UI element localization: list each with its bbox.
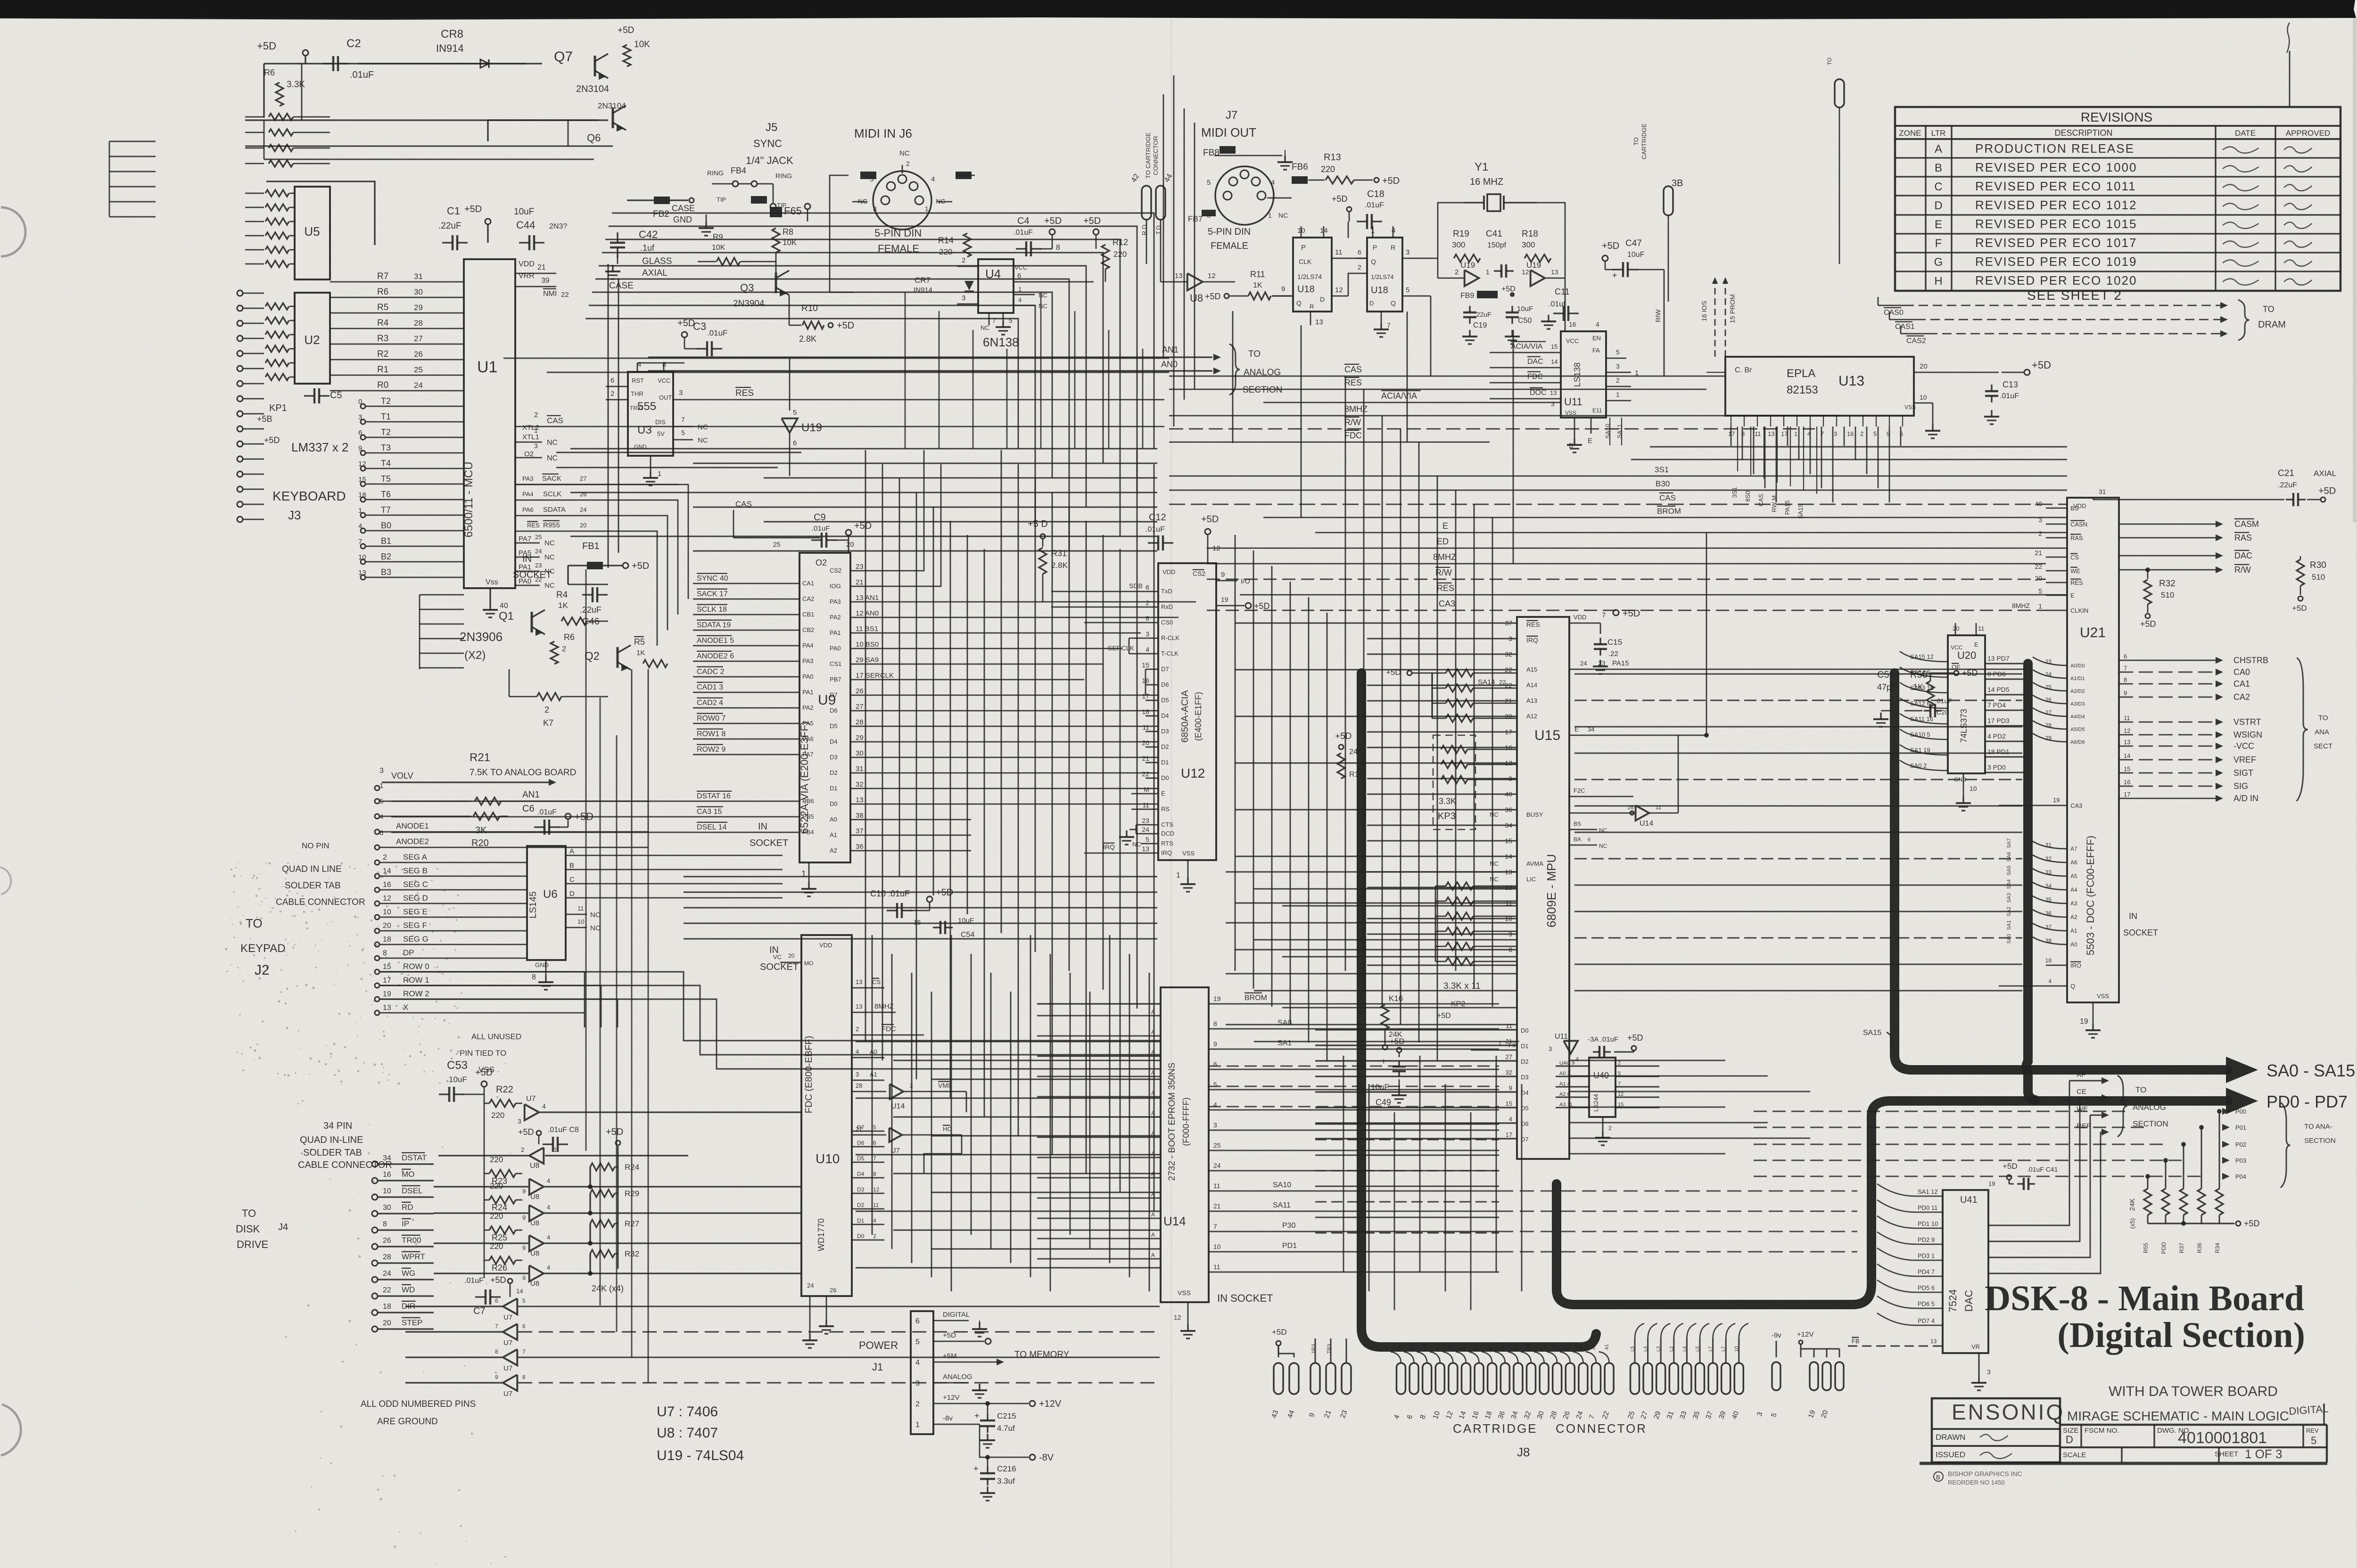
U6 right pins	[566, 855, 783, 856]
IC U4 6N138 box	[978, 259, 1014, 313]
cartridge pins group C	[1391, 1352, 1401, 1363]
ferrite bead FB9	[1477, 291, 1498, 298]
hole punch bottom left	[1, 1404, 21, 1455]
ferrite bead FB2	[654, 197, 670, 204]
wire row E	[1315, 532, 2067, 534]
J1 +5M pin	[933, 1362, 998, 1363]
IC U21 DOC box	[2067, 498, 2119, 1002]
wire row FDC	[1169, 442, 1490, 443]
IC U9 VIA box	[799, 553, 850, 862]
revisions table frame	[1895, 107, 2341, 291]
flip-flop U18b box	[1367, 238, 1402, 312]
inverter U19b	[1531, 270, 1545, 286]
transistor Q3	[775, 272, 777, 293]
ferrite bead FB7	[1202, 210, 1216, 216]
resistor R10	[802, 321, 824, 329]
U13 top pin to +5D	[1914, 372, 1999, 373]
U41 right outputs	[1988, 1224, 2055, 1226]
inverter U14a	[852, 1091, 886, 1092]
wire stub rows far left	[109, 141, 156, 142]
wire eprom rows extended	[1499, 1190, 1857, 1192]
J1 digital pin	[933, 1320, 969, 1322]
wire AN0 to analog	[648, 370, 1212, 371]
U3 pin wires	[606, 386, 628, 387]
ferrite bead J6 right	[956, 172, 972, 179]
revisions rows	[1895, 157, 2341, 158]
pullup resistor R32	[590, 1250, 615, 1257]
long wires top left to mid	[503, 357, 1169, 359]
buffer R24	[529, 1205, 544, 1221]
arrow PROM	[1725, 283, 1726, 357]
U12 data pins connect	[1146, 669, 1158, 670]
resistor R8 10K	[772, 228, 780, 253]
pullup resistor R27	[590, 1220, 615, 1227]
keyboard connector J3 pins	[237, 290, 243, 296]
U9 left pin rows	[693, 583, 799, 584]
bus PD vertical from U20	[2027, 664, 2036, 1100]
U21 right mid pins	[2119, 660, 2216, 661]
IC U11 LS138 box	[1561, 331, 1606, 418]
hole punch middle left	[0, 867, 11, 895]
IC U3 555 box	[628, 372, 673, 456]
wire top to Q7	[523, 63, 542, 64]
bus SA horizontal arrow	[1895, 673, 2228, 1070]
U13 bottom pins	[1731, 416, 1731, 427]
pullup resistor R24	[590, 1163, 615, 1171]
U11 right pins	[1606, 358, 1626, 359]
U14 right pins	[1209, 1003, 1499, 1004]
J7 gnd right	[1285, 150, 1286, 156]
row wires J2 to bottom mesh	[380, 972, 1161, 1041]
resistor 3.3K	[276, 82, 283, 106]
transistor Q6	[611, 107, 614, 128]
title block cells	[2080, 1425, 2082, 1447]
wire row ACIA/VIA	[1263, 402, 1561, 403]
resistor R30 510	[2297, 559, 2304, 586]
wire right column tall	[2289, 51, 2291, 107]
brace pd right	[2281, 1103, 2290, 1188]
wire top left rails	[245, 146, 613, 147]
U21 CA3 pin	[1999, 805, 2067, 806]
wire q3 down	[789, 295, 790, 325]
wire row 8MHZ	[1169, 415, 1838, 417]
capacitor C19	[1469, 306, 1470, 312]
IC U41 DAC box	[1943, 1190, 1988, 1353]
resistor pack KP3 upper	[1407, 671, 1412, 675]
IC U10 FDC box	[801, 935, 852, 1296]
vertical bus columns U9-U12	[865, 450, 866, 1042]
extra rows below U1	[556, 452, 801, 453]
U15 bottom data pins	[1315, 1029, 1517, 1030]
U40 left pins	[1556, 1066, 1589, 1067]
wire row RW	[1169, 428, 1815, 430]
bus SA thick vertical	[1361, 673, 1596, 1347]
bus arrowhead SA	[2226, 1057, 2258, 1083]
long rows u15 to right	[1574, 673, 2022, 675]
U5 input resistors	[245, 193, 264, 194]
U1 pin XTL2 CAS wire	[515, 426, 1164, 427]
U4 bottom pins	[989, 313, 990, 325]
capacitor C46	[582, 594, 593, 595]
IC U1 MCU box	[464, 259, 515, 588]
fold vertical bundle	[1163, 94, 1164, 358]
wire row ED	[1207, 548, 2067, 549]
U41 FB pin	[1848, 1345, 1943, 1346]
ferrite bead J6 left	[860, 172, 876, 179]
PD feed rows	[1754, 1110, 2130, 1112]
hole punch top left	[1, 207, 25, 256]
U15 right pins top	[1569, 623, 1600, 624]
U14 left pins	[1037, 1015, 1161, 1016]
IC U20 latch box	[1948, 635, 1985, 773]
row wires to right	[380, 971, 585, 973]
U12 left connecting wires	[1051, 591, 1158, 592]
wire row 8MHZ2	[1207, 563, 2046, 565]
U1 PA pins NC stubs	[515, 542, 540, 544]
U21 right arrows top	[2119, 524, 2216, 525]
title block frame	[1932, 1398, 2060, 1462]
IC U40 box	[1589, 1058, 1615, 1117]
wire row BROM	[1263, 517, 2067, 518]
horizontal rows into U15	[1235, 623, 1517, 624]
IC U6 LS145 box	[527, 846, 566, 960]
twisted pair RxD TxD	[1142, 186, 1151, 220]
U21 A7-A0 pins	[2033, 841, 2067, 849]
resistor pack KP3 lower	[1446, 882, 1473, 890]
keyboard T rows to U1	[361, 404, 365, 409]
cartridge pins group B	[1314, 1338, 1316, 1363]
dust speckles	[225, 862, 511, 1565]
wire +5D R12	[1093, 229, 1099, 235]
flip-flop U18a box	[1293, 238, 1332, 312]
wire row CAS3	[1207, 610, 2046, 611]
U6 NC pins	[566, 914, 587, 915]
analog arrows	[2069, 1080, 2102, 1082]
U40 gnd	[1602, 1117, 1604, 1131]
U15 pin E	[1569, 735, 1706, 736]
resistor R7 2ohm	[537, 693, 561, 700]
buffer R26	[529, 1265, 544, 1281]
IC U12 ACIA box	[1158, 563, 1216, 860]
vertical drop columns to cartridge	[1343, 1056, 1344, 1272]
wire disk row R26	[434, 1272, 528, 1274]
capacitor C49	[1397, 1048, 1401, 1052]
horizontal rows lower bus	[684, 876, 1157, 878]
wire drops from osc	[1430, 296, 1432, 376]
brace analog	[1229, 344, 1240, 395]
horizontals between U12 and U15 lower	[1226, 871, 1517, 873]
wire disk row R25	[434, 1242, 528, 1244]
inverter J7i	[852, 1134, 886, 1136]
wire q6	[488, 119, 599, 121]
J1 analog pin	[933, 1382, 969, 1384]
brace analog dac	[2118, 1075, 2127, 1137]
buffer U8 triangle	[1187, 273, 1203, 290]
U12 lower pins	[1131, 793, 1158, 795]
+5D rail disk	[484, 1094, 485, 1278]
U15 pins BS BA	[1569, 829, 1597, 830]
capacitor C50	[1511, 306, 1513, 312]
wire row BS0	[1169, 490, 2067, 491]
wire row RW2	[1207, 579, 2046, 580]
U9 upper right wires	[850, 570, 882, 572]
U15 lower right wires	[1569, 1059, 1725, 1061]
keyboard J3 pin wires upper	[245, 116, 264, 118]
U21 left pins upper	[2046, 508, 2067, 509]
lower buffers U7	[503, 1298, 518, 1314]
U13 left pin	[1706, 372, 1725, 373]
vertical drops mid top	[1232, 311, 1234, 443]
wire rail 2	[245, 119, 608, 121]
resistor R12 220	[1102, 245, 1109, 269]
U15 pin FIC	[1569, 796, 1633, 797]
IC U15 MPU box	[1517, 617, 1569, 1159]
wire top rail	[264, 63, 526, 64]
capacitor C2	[323, 63, 333, 64]
U5/U2 output rows to U1	[330, 281, 464, 283]
U9 lower right wires	[850, 819, 971, 821]
stadium J8b	[1835, 79, 1844, 107]
EPLA bottom fan verticals	[1731, 427, 1732, 446]
ferrite bead FB8	[1220, 146, 1236, 154]
wires U1 left lower rows	[420, 594, 464, 596]
U41 left pin fan	[1877, 1184, 1943, 1196]
jack J5 symbol	[733, 181, 738, 187]
J1 +12V pin	[933, 1403, 1029, 1404]
U21 IRO pin	[2046, 965, 2067, 966]
wire AN1	[375, 799, 379, 804]
inverter U19a	[1465, 270, 1479, 286]
vertical columns lower mesh	[872, 935, 873, 1235]
buffer R23	[529, 1179, 544, 1195]
extra columns top mid	[905, 292, 906, 449]
keypad J2 connector pins	[375, 860, 379, 865]
connector J6 DIN circle	[873, 171, 931, 230]
U20 PD pins	[1985, 663, 2023, 665]
resistor array 24K x5	[2144, 1189, 2151, 1215]
wire u18 connect	[1348, 273, 1356, 296]
U1 pin XTL1 NC	[515, 442, 542, 443]
connector J1 box	[911, 1311, 933, 1434]
wire KB loop rect	[266, 181, 375, 245]
capacitor C216	[987, 1457, 989, 1467]
resistor R20 3K	[375, 814, 379, 819]
wire to diode	[358, 63, 523, 64]
EPLA fan horizontals	[1650, 446, 2067, 448]
wire AN1 to analog	[648, 356, 1212, 358]
revisions columns	[1925, 126, 1926, 291]
buffer U7a	[525, 1104, 539, 1120]
wire row CAS2	[1169, 504, 2067, 505]
cartridge pins group D	[1635, 1323, 1644, 1338]
bishop graphics credit	[1934, 1472, 1943, 1481]
pullup resistor R29	[590, 1190, 615, 1197]
wire disk row R23	[434, 1186, 528, 1187]
+5D pullup rail	[618, 1146, 619, 1269]
vertical wires left bottom mesh	[585, 569, 587, 1151]
page right edge seam	[2353, 18, 2357, 522]
vertical pair left of U9	[607, 264, 609, 568]
arrow IOS	[1714, 283, 1716, 357]
U1 to U9 connection wires	[515, 484, 688, 599]
J1 +5D pin	[933, 1341, 984, 1342]
U9 bottom gnd	[808, 862, 810, 882]
ferrite bead FB6	[1292, 176, 1308, 184]
U3 ground	[650, 456, 651, 471]
wire row BS1	[1169, 476, 2067, 477]
vertical columns right of U12	[1235, 535, 1236, 971]
U15 pin PA15	[1569, 669, 2027, 670]
inverter U19 left	[789, 358, 791, 410]
disk connector rows	[372, 1161, 378, 1167]
J1 -8V pin	[933, 1424, 980, 1425]
title block bottom bar	[1920, 1462, 2327, 1465]
wire row CAS mid	[1169, 376, 1725, 377]
horizontal rows eprom left	[856, 1041, 1161, 1043]
resistor pack KP3 dashed box	[1433, 735, 1475, 829]
J6 frame wires	[830, 175, 853, 292]
U1 pin phi2 NC	[515, 457, 542, 459]
U2 input resistors	[265, 303, 289, 310]
wire disk row R24	[434, 1212, 528, 1214]
capacitor C15	[1599, 638, 1601, 644]
U20 SA fan	[1900, 651, 1948, 662]
capacitor C215	[987, 1404, 989, 1414]
IC U5 box	[295, 187, 330, 279]
page fold line center	[1170, 19, 1172, 1568]
U40 right pins	[1615, 1066, 1659, 1067]
bus PD thick loop	[1557, 1101, 2228, 1305]
U10 right pins lower data	[852, 1131, 884, 1132]
scanner black band top	[0, 0, 2356, 20]
wire row RES2	[1240, 594, 2067, 596]
J7 frame	[1214, 155, 1273, 156]
wire long cas row	[419, 595, 420, 669]
buffer R25	[529, 1235, 544, 1251]
brace to dram	[2238, 300, 2250, 340]
U9 data bus to U12	[850, 695, 1158, 696]
U21 Q pin	[1999, 985, 2067, 987]
U21 left A pins fan	[2033, 657, 2067, 665]
IC U14 EPROM box	[1161, 987, 1209, 1302]
left rows extended disk	[391, 801, 693, 802]
wire row RES mid	[1169, 389, 1706, 390]
wire extra dashes bottom mesh	[1209, 1066, 1499, 1067]
nested route mesh top center	[612, 213, 1154, 449]
bus arrowhead PD	[2226, 1088, 2258, 1114]
U21 brace analog	[2297, 658, 2308, 801]
osc loop wires	[1424, 203, 1464, 258]
IC U13 EPLA box	[1725, 357, 1914, 416]
U13 vss pin	[1914, 402, 1933, 404]
connector J7 DIN circle	[1215, 166, 1274, 225]
inverter U14b	[1636, 805, 1649, 821]
ferrite bead F65	[770, 207, 782, 217]
resistor R32 510	[2145, 567, 2150, 572]
U13 bottom wires down	[1737, 427, 1738, 471]
U10 right pins upper	[852, 987, 884, 989]
U21 gnd	[2093, 1002, 2094, 1024]
horizontal rows top of bus	[570, 448, 1157, 450]
wire anode rows	[375, 829, 379, 834]
PD diamonds and drops	[2217, 1109, 2222, 1114]
IC U2 box	[295, 293, 330, 384]
U12 right pins	[1216, 580, 1237, 582]
U10 left pins	[780, 962, 801, 963]
long rows u15 bottom to cartridge	[1315, 1124, 1499, 1125]
resistor 10K top	[623, 45, 631, 66]
U11 bottom pins	[1574, 418, 1575, 438]
